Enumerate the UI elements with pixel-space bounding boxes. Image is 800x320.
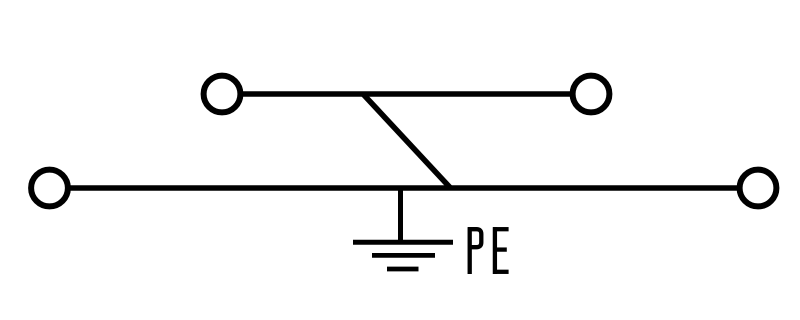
terminal circle bottom-left <box>31 170 68 207</box>
terminal circle bottom-right <box>740 170 777 207</box>
wire ground stub <box>398 188 403 242</box>
terminal circle top-left <box>204 76 241 113</box>
ground <box>353 242 453 269</box>
wire top <box>240 91 573 97</box>
wire bottom <box>68 185 741 191</box>
terminal circle top-right <box>573 76 610 113</box>
node label PE <box>468 227 509 274</box>
wire diagonal from top wire to bottom wire <box>363 94 451 188</box>
